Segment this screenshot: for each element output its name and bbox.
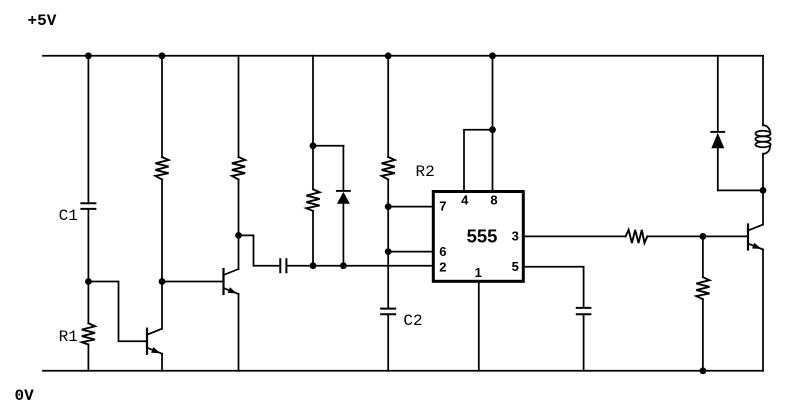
wire R1 to 0V rail bbox=[87, 345, 89, 371]
wire rail down (fourth line) bbox=[312, 56, 314, 190]
wire Q3 collector up bbox=[762, 190, 764, 224]
node Q1 collector / Q2 base junction bbox=[159, 278, 166, 285]
resistor (collector load of Q2) bbox=[232, 157, 245, 180]
resistor (pulldown) bbox=[696, 277, 709, 299]
wire pin 8 to +5V rail bbox=[492, 56, 494, 192]
svg-text:6: 6 bbox=[439, 244, 446, 259]
svg-text:1: 1 bbox=[475, 265, 482, 280]
node pin 7 junction bbox=[385, 203, 392, 210]
wire to pin 6 bbox=[388, 251, 433, 253]
svg-text:R2: R2 bbox=[416, 163, 435, 181]
svg-text:R1: R1 bbox=[59, 328, 78, 346]
node trigger line diode junction bbox=[340, 262, 347, 269]
node C1/R1 junction bbox=[85, 278, 92, 285]
node on +5V rail above C1 bbox=[85, 52, 92, 59]
wire Q1 emitter to 0V rail bbox=[161, 354, 163, 371]
capacitor (coupling) bbox=[280, 259, 286, 272]
svg-text:7: 7 bbox=[439, 199, 446, 214]
svg-text:3: 3 bbox=[512, 229, 519, 244]
wire resistor to Q3 base bbox=[647, 235, 748, 237]
node trigger line left bbox=[310, 262, 317, 269]
wire resistor to Q1 collector bbox=[161, 180, 163, 329]
inductor L1 relay coil bbox=[755, 125, 770, 154]
svg-text:2: 2 bbox=[439, 260, 446, 275]
wire diode bottom to node bbox=[718, 189, 763, 191]
wire resistor to trigger line bbox=[312, 211, 314, 266]
wire capacitor to 0V rail bbox=[583, 314, 585, 371]
node Q2 collector branch bbox=[235, 232, 242, 239]
wire node to coupling capacitor bbox=[239, 235, 280, 265]
capacitor (pin 5 bypass) bbox=[577, 308, 591, 314]
wire C2 to 0V rail bbox=[387, 314, 389, 371]
wire rail to flyback diode bbox=[717, 56, 719, 131]
node relay/diode junction bbox=[760, 187, 767, 194]
wire pulldown to 0V rail bbox=[702, 299, 704, 371]
svg-text:5: 5 bbox=[512, 259, 519, 274]
svg-text:C2: C2 bbox=[403, 312, 422, 330]
node pin 6 junction bbox=[385, 248, 392, 255]
wire capacitor to 555 pin 2 bbox=[286, 265, 433, 267]
svg-text:0V: 0V bbox=[15, 387, 35, 405]
wire rail to resistor bbox=[161, 56, 163, 157]
wire node to Q2 base bbox=[162, 281, 224, 283]
wire pin 1 to 0V rail bbox=[478, 281, 480, 371]
wire diode branch horizontal bbox=[313, 145, 343, 147]
wire C1 to R1 bbox=[87, 209, 89, 323]
node pulldown ground junction bbox=[700, 367, 707, 374]
svg-text:555: 555 bbox=[467, 225, 498, 246]
capacitor C1 bbox=[81, 203, 95, 209]
svg-text:C1: C1 bbox=[59, 207, 78, 225]
svg-text:8: 8 bbox=[490, 192, 497, 207]
0V rail bbox=[43, 370, 763, 372]
wire diode to trigger line bbox=[342, 204, 344, 266]
+5V rail bbox=[43, 55, 763, 57]
transistor Q3 bbox=[748, 225, 763, 250]
wire rail to resistor (third line) bbox=[238, 56, 240, 157]
resistor (timing line) bbox=[306, 189, 319, 211]
wire pin 4 bbox=[464, 130, 493, 192]
wire Q2 emitter to 0V rail bbox=[238, 294, 240, 371]
resistor (base drive) bbox=[626, 230, 648, 243]
wire rail corner to inductor bbox=[762, 56, 764, 126]
resistor R1 bbox=[82, 323, 95, 344]
node Q3 base / pulldown junction bbox=[700, 233, 707, 240]
transistor Q1 bbox=[147, 329, 162, 354]
wire pin 3 output bbox=[524, 235, 626, 237]
diode D2 flyback bbox=[711, 132, 724, 148]
wire Q3 emitter to 0V rail bbox=[762, 250, 764, 371]
node pin 8 rail junction bbox=[489, 52, 496, 59]
resistor R2 bbox=[382, 157, 395, 180]
transistor Q2 bbox=[224, 269, 239, 294]
wire diode top bbox=[342, 146, 344, 190]
node on +5V rail second line bbox=[159, 52, 166, 59]
wire inductor to node bbox=[762, 154, 764, 191]
node pin 4/8 junction bbox=[489, 126, 496, 133]
wire pin 5 to capacitor bbox=[524, 267, 584, 308]
svg-text:4: 4 bbox=[461, 192, 469, 207]
op-amp U1 555 IC body bbox=[433, 192, 523, 282]
wire node to Q1 base bbox=[88, 282, 147, 342]
wire resistor to Q2 collector bbox=[238, 180, 240, 270]
wire rail to R2 bbox=[387, 56, 389, 157]
wire node to pulldown resistor bbox=[702, 236, 704, 277]
capacitor C2 bbox=[381, 309, 395, 315]
diode D1 bbox=[337, 191, 350, 204]
node on +5V rail (R2 line) bbox=[385, 52, 392, 59]
wire R2 to C2 bbox=[387, 180, 389, 308]
resistor (collector load of Q1) bbox=[155, 157, 168, 180]
wire diode to node bbox=[717, 148, 719, 190]
node diode branch top bbox=[310, 142, 317, 149]
wire to pin 7 bbox=[388, 206, 433, 208]
svg-text:+5V: +5V bbox=[28, 12, 57, 30]
wire top rail to C1 bbox=[87, 56, 89, 203]
